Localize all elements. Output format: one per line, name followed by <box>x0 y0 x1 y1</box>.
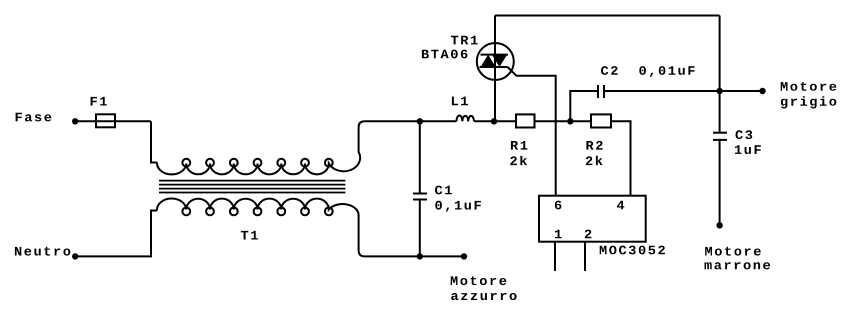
label Motore marrone line 2 <box>705 262 771 269</box>
secondary winding loops <box>182 208 190 216</box>
capacitor C2 branch wire <box>570 91 598 121</box>
label C1 <box>435 186 452 195</box>
wire triac vertical <box>494 16 496 122</box>
label C1 value <box>435 201 481 212</box>
label T1 <box>241 231 258 240</box>
label C2 <box>601 66 618 75</box>
triac TR1 triangles <box>481 55 496 67</box>
wire Neutro line <box>75 211 157 257</box>
label Motore grigio line 2 <box>781 96 837 108</box>
wire bottom: secondary to Motore azzurro <box>365 255 464 257</box>
label Motore azzurro line 1 <box>451 276 507 285</box>
wire C2 to junction and Motore grigio <box>604 90 763 92</box>
wire Fase line <box>75 120 151 122</box>
MOC pin 1 wire <box>554 242 556 271</box>
wire right vertical to C3 <box>719 16 721 132</box>
node R2 left junction <box>567 118 573 124</box>
label C2 value <box>639 66 694 77</box>
triac TR1 bars <box>481 54 509 56</box>
label F1 <box>91 97 107 106</box>
label L1 <box>452 97 468 106</box>
wire top <box>495 15 720 17</box>
primary winding loops <box>182 159 190 167</box>
transformer core <box>159 181 345 193</box>
capacitor C3 plates <box>713 132 727 134</box>
capacitor C1 plates <box>413 193 427 195</box>
fuse F1 <box>96 114 115 127</box>
label C3 <box>736 130 753 139</box>
label pin 4 <box>617 201 624 210</box>
label R2 <box>586 141 602 150</box>
label TR1 <box>451 36 478 45</box>
triac TR1 gate wire <box>508 67 556 196</box>
node Fase terminal <box>72 118 78 124</box>
label R1 value <box>510 156 527 165</box>
transformer T1 primary winding <box>157 121 365 174</box>
label R2 value <box>586 156 603 165</box>
node C1 bottom junction <box>417 253 423 259</box>
transformer T1 secondary winding <box>157 198 365 256</box>
wire R1 to R2 <box>535 120 592 122</box>
label pin 2 <box>585 230 592 239</box>
inductor L1 <box>457 115 475 121</box>
node Neutro terminal <box>72 253 78 259</box>
optocoupler MOC3052 box <box>539 196 646 242</box>
label pin 1 <box>555 230 562 239</box>
node Motore grigio terminal <box>759 88 765 94</box>
node C2/C3 junction <box>716 88 722 94</box>
capacitor C1 branch wires <box>419 121 421 192</box>
label BTA06 <box>422 50 468 59</box>
wire main line transformer to L1 <box>365 120 457 122</box>
label Motore grigio line 1 <box>781 82 837 91</box>
label Motore azzurro line 2 <box>451 293 516 300</box>
label pin 6 <box>555 201 562 210</box>
capacitor C2 plates <box>597 85 599 98</box>
label R1 <box>511 141 528 150</box>
label Motore marrone line 1 <box>705 247 761 256</box>
node C1 top junction <box>417 118 423 124</box>
resistor R2 <box>591 114 611 127</box>
label C3 value <box>735 145 761 154</box>
triac TR1 body <box>477 43 514 80</box>
wire left vertical to transformer primary <box>151 121 157 162</box>
wire R2 to MOC pin 4 <box>611 121 631 195</box>
label Neutro <box>15 247 70 256</box>
node Motore marrone terminal <box>716 222 722 228</box>
node Motore azzurro terminal <box>461 253 467 259</box>
node triac junction <box>491 118 497 124</box>
label MOC3052 <box>600 246 665 255</box>
MOC pin 2 wire <box>584 242 586 271</box>
resistor R1 <box>516 114 535 127</box>
wire L1 to R1 <box>474 120 516 122</box>
label Fase <box>16 113 52 122</box>
